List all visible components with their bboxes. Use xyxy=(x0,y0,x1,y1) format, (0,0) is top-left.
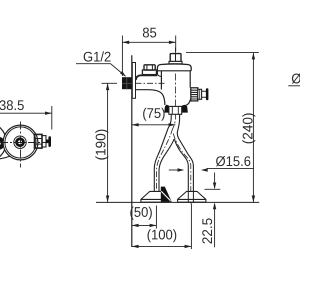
dim (50) line xyxy=(132,224,157,226)
dim (240) extension line xyxy=(186,52,259,54)
G1/2 inlet nut (sectioned black) xyxy=(122,77,132,89)
dim (75) text xyxy=(143,108,165,121)
horizontal centerline xyxy=(0,142,46,144)
valve cap inner circle xyxy=(5,127,36,158)
dim (50) right arrow xyxy=(150,224,157,227)
handle nut facet lines xyxy=(35,139,43,145)
dim 85 text xyxy=(143,28,156,38)
push button stem xyxy=(46,140,49,144)
inlet nut section grid lines xyxy=(122,77,132,89)
down pipe right wall xyxy=(177,114,193,191)
cap bottom line xyxy=(158,70,192,72)
down pipe left wall xyxy=(154,114,171,191)
right port neck xyxy=(202,91,206,97)
inlet axis centerline xyxy=(136,82,165,84)
outlet coupling right wing xyxy=(182,105,188,113)
right port step piece mid line xyxy=(199,89,201,99)
valve top nut facet xyxy=(175,54,177,62)
dim Ø15.6 left arrowhead xyxy=(178,168,185,171)
dim (50) left arrow xyxy=(132,224,139,227)
dim (100) left arrow xyxy=(132,245,139,248)
inlet bonnet nut xyxy=(144,65,155,70)
inlet bonnet nut facets xyxy=(147,65,153,70)
dim Ø15.6 leader line xyxy=(207,167,254,169)
vertical centerline xyxy=(20,122,22,168)
dim (75) line xyxy=(132,124,176,126)
handle nut xyxy=(35,134,43,148)
inlet centerline stub xyxy=(102,82,118,84)
dim 22.5 bottom arrowhead xyxy=(213,203,216,210)
Y crotch left inner wall xyxy=(159,139,174,191)
dimension 38.5 xyxy=(0,106,52,130)
dim 85 right extension xyxy=(175,36,177,52)
body left side xyxy=(160,71,162,90)
right foot xyxy=(178,191,206,202)
right foot pipe walls through foot xyxy=(188,191,193,202)
38.5 extension line xyxy=(51,106,53,130)
valve cap outer circle xyxy=(3,125,38,160)
dim 85 right arrow xyxy=(169,41,176,44)
dim (240) bottom arrow xyxy=(252,196,255,203)
inlet nut sectioned body xyxy=(122,77,132,89)
inlet arm top edge xyxy=(136,75,158,80)
right leg centerline xyxy=(173,134,190,206)
inlet arm bottom edge and body lower-left S curve xyxy=(136,90,165,105)
dim 22.5 top crossbar xyxy=(205,188,221,190)
outlet coupling left wing xyxy=(164,105,169,113)
outlet coupling nut facets xyxy=(172,106,178,114)
dim (100) right extension line xyxy=(190,204,192,250)
right port ribs xyxy=(191,90,198,99)
escutcheon plate xyxy=(132,63,135,99)
dim (190) line xyxy=(107,83,109,202)
main vertical centerline xyxy=(173,48,176,129)
black sectioned ring at left edge xyxy=(0,139,3,148)
dim (100) line xyxy=(132,245,192,247)
dim (75) left arrow xyxy=(132,123,139,126)
cut-off diameter label at right edge xyxy=(292,73,316,83)
cap left lip curl xyxy=(157,74,161,77)
outlet coupling nut xyxy=(169,106,182,114)
dim (190) bottom arrow xyxy=(106,196,109,203)
lower flange arc xyxy=(0,155,13,159)
wall line xyxy=(131,55,133,247)
dim (75) right arrow xyxy=(169,123,176,126)
hub circle xyxy=(14,136,26,148)
G1/2 leader arrow xyxy=(120,71,126,77)
inlet bonnet flange xyxy=(142,70,156,75)
dim (240) top arrow xyxy=(252,53,255,60)
cut-off label underline xyxy=(288,85,300,87)
dim (240) line xyxy=(252,53,254,203)
floor line xyxy=(96,201,259,203)
body right funnel curve xyxy=(186,100,190,106)
left foot xyxy=(141,191,169,202)
38.5 dimension line xyxy=(0,112,52,114)
dim (100) text xyxy=(148,229,177,242)
push button end bar xyxy=(48,136,51,147)
dim 22.5 bottom arrow shaft xyxy=(214,204,216,248)
dim 22.5 top arrowhead xyxy=(213,183,216,190)
dim (240) text xyxy=(242,113,255,143)
38.5 arrow xyxy=(45,112,52,115)
dim Ø15.6 right arrowhead xyxy=(201,168,208,171)
left foot wedge highlight xyxy=(161,191,170,201)
dim (50) extension line xyxy=(155,206,157,229)
cap step xyxy=(169,61,182,64)
dim 85 left extension xyxy=(121,36,123,77)
38.5 text xyxy=(0,100,24,110)
dim (100) right arrow xyxy=(185,245,192,248)
cap dome xyxy=(157,64,191,74)
valve top nut xyxy=(170,54,181,62)
dim 22.5 top arrow shaft xyxy=(214,173,216,189)
dim (190) text xyxy=(95,130,108,160)
dim (50) text xyxy=(130,207,152,220)
dim Ø15.6 text xyxy=(216,156,250,166)
background flange circle (partially off-canvas) xyxy=(0,122,6,161)
Y crotch right inner wall xyxy=(175,139,189,191)
G1/2 leader underline xyxy=(76,64,125,76)
right port ribbed nut xyxy=(191,88,198,101)
body right side xyxy=(189,71,191,88)
dim 22.5 text xyxy=(202,218,212,243)
dim 85 left arrow xyxy=(122,41,129,44)
dim 85 line xyxy=(122,41,175,43)
right port end bar xyxy=(206,88,209,100)
hub black ring xyxy=(17,139,24,146)
dim Ø15.6 left arrow line xyxy=(169,169,179,171)
left leg centerline xyxy=(157,129,173,197)
G1/2 label text xyxy=(84,51,111,61)
left foot section wedge (black) xyxy=(161,187,172,202)
right port step piece xyxy=(198,89,202,99)
handle second ring xyxy=(42,136,46,147)
dim (190) top arrow xyxy=(106,83,109,90)
